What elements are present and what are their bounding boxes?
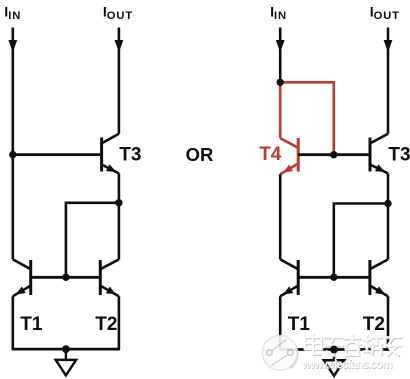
current arrow I_IN left bbox=[8, 40, 17, 52]
transistor T4 bbox=[280, 138, 298, 174]
node I_IN tap right bbox=[277, 79, 284, 86]
wire T4 emitter down right bbox=[279, 174, 282, 259]
svg-text:OR: OR bbox=[186, 144, 214, 165]
current arrow I_OUT left bbox=[115, 40, 124, 52]
base node left bbox=[62, 274, 69, 281]
node T3 emitter right bbox=[384, 200, 391, 207]
svg-text:OUT: OUT bbox=[107, 10, 133, 22]
wire shared base right bbox=[298, 276, 370, 279]
svg-text:IN: IN bbox=[274, 10, 287, 22]
wire T3 emitter down left bbox=[118, 173, 121, 202]
svg-text:IN: IN bbox=[8, 10, 21, 22]
wire feedback to bases right bbox=[334, 204, 388, 278]
transistor T2 left bbox=[100, 259, 119, 296]
node T3 emitter left bbox=[115, 199, 122, 206]
wire red base tap bbox=[280, 82, 334, 154]
wire T1 emitter down left bbox=[12, 296, 15, 349]
transistor T3 right bbox=[370, 134, 388, 174]
base node right bbox=[330, 274, 337, 281]
wire emitter bus left bbox=[12, 348, 121, 351]
ground right stub bbox=[333, 350, 335, 360]
ground right symbol bbox=[324, 360, 344, 376]
transistor T1 left bbox=[13, 259, 31, 296]
svg-text:T3: T3 bbox=[119, 145, 141, 166]
transistor T2 right bbox=[370, 259, 388, 296]
wire I_OUT right vertical bbox=[387, 28, 390, 134]
wire T2 collector up left bbox=[118, 203, 121, 260]
transistor T1 right bbox=[280, 259, 298, 296]
wire shared base left bbox=[31, 276, 101, 279]
svg-text:T4: T4 bbox=[259, 144, 282, 165]
wire I_OUT left vertical bbox=[118, 28, 121, 134]
ground left stub bbox=[65, 349, 67, 359]
wire shared base T4 T3 bbox=[298, 153, 369, 156]
wire T3 emitter down right bbox=[387, 173, 390, 203]
watermark text dianzifashaoyou bbox=[306, 336, 402, 356]
wire I_IN right vertical bbox=[279, 28, 282, 83]
wire T1 emitter down right bbox=[279, 296, 282, 349]
svg-text:T2: T2 bbox=[363, 314, 385, 335]
node A left bbox=[9, 151, 16, 158]
svg-text:OUT: OUT bbox=[374, 10, 400, 22]
wire I_IN left vertical bbox=[12, 28, 15, 260]
ground right node dot bbox=[330, 346, 338, 354]
transistor T3 left bbox=[102, 134, 119, 174]
ground left node dot bbox=[62, 345, 70, 353]
ground left symbol bbox=[56, 360, 76, 376]
svg-text:www.elecfans.com: www.elecfans.com bbox=[301, 358, 392, 371]
wire T2 emitter down left bbox=[118, 296, 121, 349]
current arrow I_IN right bbox=[276, 40, 285, 52]
svg-text:T1: T1 bbox=[288, 314, 311, 335]
wire feedback to bases left bbox=[66, 203, 119, 277]
svg-text:T3: T3 bbox=[388, 144, 410, 165]
wire T3 base left bbox=[13, 153, 101, 156]
wire T2 emitter down right bbox=[387, 296, 390, 349]
current arrow I_OUT right bbox=[384, 40, 393, 52]
wire red T4 collector drop bbox=[279, 82, 282, 138]
wire emitter bus right bbox=[279, 348, 389, 351]
watermark logo disc bbox=[262, 335, 297, 370]
wire T2 collector up right bbox=[387, 204, 390, 260]
node base junction right bbox=[330, 151, 337, 158]
svg-text:T1: T1 bbox=[20, 314, 43, 335]
svg-text:T2: T2 bbox=[95, 314, 117, 335]
ground right node dot (over watermark) bbox=[330, 346, 338, 354]
